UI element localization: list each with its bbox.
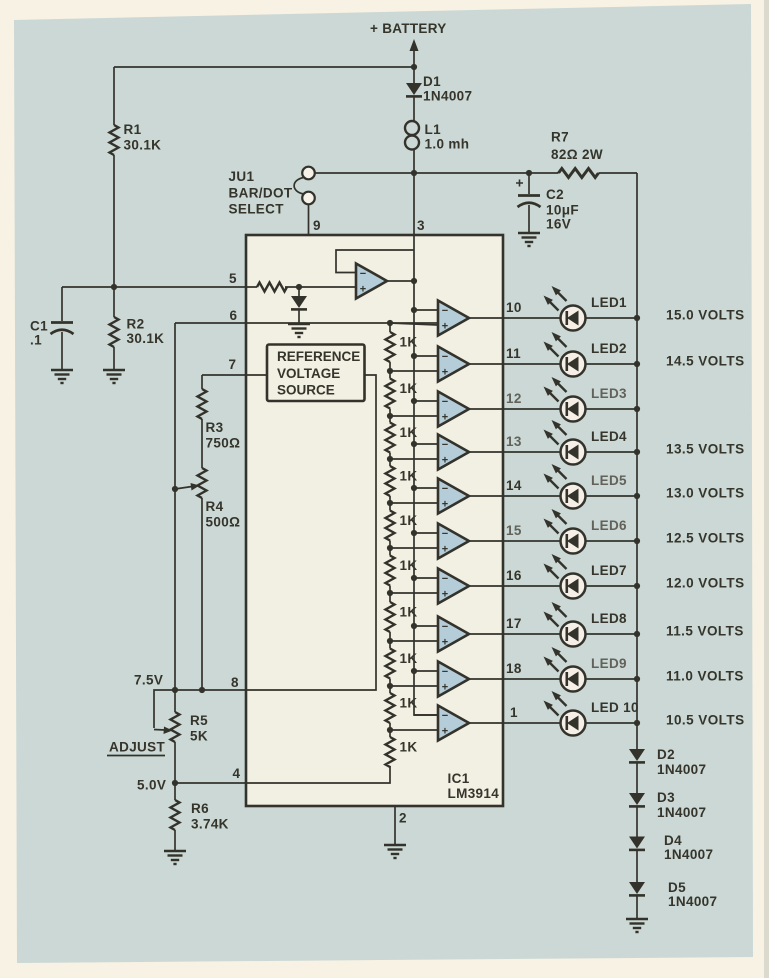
svg-text:1N4007: 1N4007 (423, 89, 472, 104)
wire comparator 1 output to pin 10 (469, 317, 503, 319)
wire pin 15 to LED6 (503, 540, 561, 542)
svg-text:1N4007: 1N4007 (664, 847, 713, 862)
svg-text:LED4: LED4 (591, 429, 627, 444)
resistor R7 82ohm 2W (551, 130, 603, 178)
wire D5 to ground (636, 896, 638, 919)
op-amp comparator 1 (438, 301, 469, 336)
svg-text:1K: 1K (400, 558, 418, 573)
ground below D5 (626, 919, 648, 932)
op-amp comparator 6 (438, 524, 469, 559)
svg-text:1K: 1K (400, 651, 418, 666)
wire bus to comparator 2 minus input (414, 355, 438, 357)
wire pin 7 REF OUT (202, 374, 267, 376)
resistor ladder 1K #10 (386, 730, 418, 767)
svg-text:LED7: LED7 (591, 563, 627, 578)
svg-text:D5: D5 (668, 880, 686, 895)
svg-text:JU1: JU1 (229, 169, 255, 184)
op-amp comparator 9 (438, 662, 469, 697)
node junction C2 tap (526, 170, 532, 176)
node junction bus tap 7 (411, 575, 417, 581)
svg-text:4: 4 (233, 766, 241, 781)
node 7.5V junction (172, 687, 178, 693)
LED7 (544, 554, 627, 599)
jumper JU1 BAR/DOT SELECT (229, 167, 315, 217)
svg-text:5K: 5K (190, 729, 208, 744)
battery terminal arrow + BATTERY (370, 21, 447, 64)
wire pin 12 to LED3 (503, 408, 561, 410)
svg-text:11.5 VOLTS: 11.5 VOLTS (666, 624, 744, 639)
resistor ladder 1K #1 (386, 323, 418, 371)
op-amp comparator 4 (438, 435, 469, 470)
op-amp comparator 7 (438, 569, 469, 604)
wire bus to comparator 6 minus input (414, 532, 438, 534)
wire bus to comparator 7 minus input (414, 577, 438, 579)
svg-text:LED6: LED6 (591, 518, 627, 533)
wire LED7 to supply rail (586, 585, 638, 587)
wire pin 11 to LED2 (503, 363, 561, 365)
svg-text:IC1: IC1 (448, 771, 470, 786)
node junction ladder tap 2 (387, 368, 393, 374)
svg-text:11: 11 (506, 346, 521, 361)
svg-text:1K: 1K (400, 740, 418, 755)
resistor R6 3.74K (171, 783, 229, 851)
wire pin 18 to LED9 (503, 678, 561, 680)
resistor R1 30.1K (110, 67, 162, 287)
node junction internal pin5 / clamp diode (296, 284, 302, 290)
node junction ladder tap 10 (387, 727, 393, 733)
svg-text:11.0 VOLTS: 11.0 VOLTS (666, 669, 744, 684)
ground below C1 (51, 370, 73, 383)
svg-text:2: 2 (399, 811, 407, 826)
wire comparator 9 output to pin 18 (469, 678, 503, 680)
wire ladder tap to comparator 9 plus input (390, 685, 438, 687)
svg-text:1: 1 (510, 705, 518, 720)
svg-text:10μF: 10μF (546, 203, 579, 218)
LED8 (544, 602, 628, 647)
svg-text:LED2: LED2 (591, 341, 627, 356)
svg-text:10.5 VOLTS: 10.5 VOLTS (666, 713, 745, 728)
inductor L1 1.0 mh (405, 121, 469, 152)
wire D4 to next diode (636, 851, 638, 883)
wire JU1 to R7 and LED rail corner (315, 172, 637, 174)
wire LED10 to supply rail (586, 722, 638, 724)
wire ladder tap to comparator 4 plus input (390, 458, 438, 460)
diode D1 1N4007 (406, 74, 472, 104)
wire bus to comparator 5 minus input (414, 487, 438, 489)
wire pin6 branch down to R4 wiper and 7.5V node (174, 323, 176, 690)
wire ladder tap to comparator 10 plus input (390, 729, 438, 731)
wire pin 6 RHI to ladder top and comparator 1 (175, 322, 438, 324)
svg-text:7.5V: 7.5V (134, 673, 163, 688)
wire battery riser to D1 (413, 64, 415, 83)
LED1 (544, 286, 628, 331)
label IC1 LM3914 (448, 771, 500, 801)
node junction ladder tap 6 (387, 545, 393, 551)
svg-text:12.5 VOLTS: 12.5 VOLTS (666, 531, 745, 546)
op-amp buffer A11 (356, 264, 387, 299)
wire LED9 to supply rail (586, 678, 638, 680)
wire bus to comparator 4 minus input (414, 443, 438, 445)
node junction supply rail (411, 170, 417, 176)
wire bus to comparator 8 minus input (414, 625, 438, 627)
svg-text:3.74K: 3.74K (191, 817, 229, 832)
node junction ladder top RHI (387, 320, 393, 326)
svg-text:SELECT: SELECT (229, 202, 285, 217)
capacitor C1 .1 (30, 287, 74, 370)
svg-text:VOLTAGE: VOLTAGE (277, 366, 340, 381)
ground below clamp diode (288, 324, 310, 337)
node junction battery line / top feed (411, 64, 417, 70)
wire ref box to pin 8 REF ADJ (154, 375, 376, 728)
svg-text:30.1K: 30.1K (124, 138, 162, 153)
wire bus to comparator 1 minus input (414, 309, 438, 311)
resistor ladder 1K #2 (386, 371, 418, 416)
svg-text:1K: 1K (400, 696, 418, 711)
wire comparator 8 output to pin 17 (469, 633, 503, 635)
svg-text:1N4007: 1N4007 (668, 894, 717, 909)
svg-text:D3: D3 (657, 790, 675, 805)
svg-text:LED9: LED9 (591, 656, 627, 671)
ground below pin 2 (384, 845, 406, 858)
op-amp comparator 8 (438, 617, 469, 652)
resistor ladder 1K #4 (386, 459, 418, 503)
wire ladder tap to comparator 8 plus input (390, 640, 438, 642)
wiper arrow of R4 (175, 483, 200, 491)
LED2 (544, 332, 627, 377)
wiper arrow of R5 (154, 727, 173, 735)
LED6 (544, 509, 628, 554)
resistor ladder 1K #6 (386, 548, 418, 593)
svg-text:12: 12 (506, 391, 522, 406)
wire pin 1 to LED10 (503, 722, 561, 724)
wire comparator 3 output to pin 12 (469, 408, 503, 410)
wire LED3 to supply rail (586, 408, 638, 410)
op-amp comparator 2 (438, 347, 469, 382)
node junction bus tap 2 (411, 353, 417, 359)
svg-text:1K: 1K (400, 513, 418, 528)
LED9 (544, 647, 627, 692)
node junction bus tap 1 (411, 307, 417, 313)
svg-text:LED8: LED8 (591, 611, 627, 626)
wire pin 16 to LED7 (503, 585, 561, 587)
wire pin 10 to LED1 (503, 317, 561, 319)
node junction R4 wiper on pin6 branch (172, 486, 178, 492)
wire top feed from R1 to battery line (114, 66, 414, 68)
svg-text:1K: 1K (400, 469, 418, 484)
wire LED4 to supply rail (586, 451, 638, 453)
capacitor C2 10uF 16V (516, 173, 579, 233)
resistor ladder 1K #3 (386, 416, 418, 459)
node junction ladder tap 4 (387, 456, 393, 462)
svg-text:1K: 1K (400, 605, 418, 620)
resistor internal on pin 5 (257, 283, 287, 292)
op-amp comparator 3 (438, 392, 469, 427)
wire comparator 4 output to pin 13 (469, 451, 503, 453)
svg-text:1.0 mh: 1.0 mh (425, 137, 470, 152)
svg-text:82Ω 2W: 82Ω 2W (551, 147, 603, 162)
svg-text:LED5: LED5 (591, 473, 627, 488)
wire pin 17 to LED8 (503, 633, 561, 635)
wire LED supply rail (634, 173, 640, 749)
wire D3 to next diode (636, 807, 638, 837)
svg-text:R2: R2 (127, 317, 145, 332)
wire LED2 to supply rail (586, 363, 638, 365)
wire pin 5 signal input (62, 286, 356, 288)
clamp diode inside IC (291, 287, 307, 323)
svg-text:12.0 VOLTS: 12.0 VOLTS (666, 576, 745, 591)
wire bus to comparator 10 minus input (414, 714, 438, 716)
node junction R1/R2 on pin5 wire (111, 284, 117, 290)
svg-text:D4: D4 (664, 833, 682, 848)
wire pin 2 to ground (394, 806, 396, 845)
wire comparator 2 output to pin 11 (469, 363, 503, 365)
wire LED1 to supply rail (586, 317, 638, 319)
wire buffer output to bus (387, 280, 414, 282)
wire ladder tap to comparator 7 plus input (390, 592, 438, 594)
IC U1 body IC1 LM3914 (246, 235, 503, 806)
svg-text:R1: R1 (124, 122, 142, 137)
svg-text:6: 6 (230, 308, 238, 323)
LED10 (544, 691, 639, 736)
wire pin 4 RLO to ladder bottom (175, 766, 390, 783)
svg-text:LED1: LED1 (591, 295, 627, 310)
node junction ladder tap 7 (387, 590, 393, 596)
label ADJUST underlined (107, 740, 166, 756)
svg-text:7: 7 (229, 357, 237, 372)
svg-text:1N4007: 1N4007 (657, 805, 706, 820)
wire feedback loop of buffer (336, 250, 414, 273)
svg-text:C1: C1 (30, 319, 48, 334)
svg-text:13.5 VOLTS: 13.5 VOLTS (666, 442, 745, 457)
svg-text:D2: D2 (657, 747, 675, 762)
svg-text:15: 15 (506, 523, 522, 538)
svg-text:14.5 VOLTS: 14.5 VOLTS (666, 354, 745, 369)
wire LED8 to supply rail (586, 633, 638, 635)
svg-text:LED3: LED3 (591, 386, 627, 401)
resistor ladder 1K #9 (386, 686, 418, 730)
svg-text:8: 8 (231, 675, 239, 690)
svg-text:.1: .1 (30, 333, 42, 348)
svg-text:1K: 1K (400, 425, 418, 440)
wire ladder tap to comparator 5 plus input (390, 502, 438, 504)
node junction bus tap 8 (411, 623, 417, 629)
diode D2 1N4007 (629, 747, 706, 777)
wire ladder tap to comparator 3 plus input (390, 415, 438, 417)
wire D1 to L1 (413, 97, 415, 121)
node junction bus tap 4 (411, 441, 417, 447)
ground below R6 (164, 851, 186, 864)
svg-text:13.0 VOLTS: 13.0 VOLTS (666, 486, 745, 501)
node junction ladder tap 9 (387, 683, 393, 689)
node junction bus tap 6 (411, 530, 417, 536)
svg-text:17: 17 (506, 616, 522, 631)
wire LED6 to supply rail (586, 540, 638, 542)
node junction bus tap 5 (411, 485, 417, 491)
node junction ladder tap 3 (387, 413, 393, 419)
wire pin 13 to LED4 (503, 451, 561, 453)
svg-text:16: 16 (506, 568, 522, 583)
ground below R2 (103, 370, 125, 383)
wire pin 14 to LED5 (503, 495, 561, 497)
svg-text:ADJUST: ADJUST (109, 740, 166, 755)
svg-text:L1: L1 (425, 122, 442, 137)
op-amp comparator 10 (438, 706, 469, 741)
svg-text:500Ω: 500Ω (206, 515, 241, 530)
svg-text:R6: R6 (191, 801, 209, 816)
node junction bus tap 9 (411, 668, 417, 674)
svg-text:+ BATTERY: + BATTERY (370, 21, 447, 36)
svg-text:R4: R4 (206, 499, 224, 514)
svg-text:15.0 VOLTS: 15.0 VOLTS (666, 308, 745, 323)
svg-text:LM3914: LM3914 (448, 786, 500, 801)
node junction R3 chain on pin8 wire (199, 687, 205, 693)
svg-text:9: 9 (313, 218, 321, 233)
diode D4 1N4007 (629, 833, 713, 862)
node junction buffer output on bus (411, 278, 417, 284)
op-amp comparator 5 (438, 479, 469, 514)
node junction ladder tap 5 (387, 500, 393, 506)
svg-text:R7: R7 (551, 130, 569, 145)
LED3 (544, 377, 628, 422)
node junction ladder tap 8 (387, 638, 393, 644)
node junction bus tap 3 (411, 398, 417, 404)
wire comparator 5 output to pin 14 (469, 495, 503, 497)
wire ladder tap to comparator 1 plus input (390, 323, 438, 325)
wire comparator 6 output to pin 15 (469, 540, 503, 542)
wire D2 to next diode (636, 763, 638, 793)
svg-text:5: 5 (229, 271, 237, 286)
wire jumper pin 9 into IC (308, 204, 310, 235)
svg-text:BAR/DOT: BAR/DOT (229, 186, 293, 201)
ground below C2 (518, 233, 540, 246)
svg-text:18: 18 (506, 661, 522, 676)
resistor R3 750ohm (198, 375, 241, 451)
wire comparator 10 output to pin 1 (469, 722, 503, 724)
svg-text:10: 10 (506, 300, 522, 315)
wire ladder tap to comparator 6 plus input (390, 547, 438, 549)
svg-text:R5: R5 (190, 713, 208, 728)
svg-text:1K: 1K (400, 335, 418, 350)
svg-text:14: 14 (506, 478, 522, 493)
svg-text:C2: C2 (546, 187, 564, 202)
wire ladder tap to comparator 2 plus input (390, 370, 438, 372)
wire L1 down to supply node, pin 3 entry, internal bus to comparators (414, 150, 438, 716)
wire bus to comparator 3 minus input (414, 400, 438, 402)
diode D5 1N4007 (629, 880, 717, 909)
resistor ladder 1K #8 (386, 641, 418, 686)
resistor ladder 1K #5 (386, 503, 418, 548)
LED5 (544, 464, 628, 509)
resistor R5 5K rheostat (171, 690, 209, 783)
svg-text:SOURCE: SOURCE (277, 383, 335, 398)
resistor R2 30.1K (110, 287, 165, 370)
svg-text:1K: 1K (400, 381, 418, 396)
svg-text:5.0V: 5.0V (137, 778, 166, 793)
svg-text:30.1K: 30.1K (127, 331, 165, 346)
svg-text:LED 10: LED 10 (591, 700, 639, 715)
svg-text:REFERENCE: REFERENCE (277, 349, 360, 364)
LED4 (544, 420, 628, 465)
reference voltage source box (267, 345, 365, 402)
svg-text:R3: R3 (206, 420, 224, 435)
svg-text:1N4007: 1N4007 (657, 762, 706, 777)
svg-text:16V: 16V (546, 217, 571, 232)
wire bus to comparator 9 minus input (414, 670, 438, 672)
resistor ladder 1K #7 (386, 593, 418, 641)
svg-text:13: 13 (506, 434, 522, 449)
wire LED5 to supply rail (586, 495, 638, 497)
svg-text:3: 3 (417, 218, 425, 233)
svg-text:750Ω: 750Ω (206, 436, 241, 451)
node 5.0V junction (172, 780, 178, 786)
resistor R4 500ohm potentiometer (198, 419, 241, 690)
svg-text:D1: D1 (423, 74, 441, 89)
diode D3 1N4007 (629, 790, 706, 820)
wire comparator 7 output to pin 16 (469, 585, 503, 587)
